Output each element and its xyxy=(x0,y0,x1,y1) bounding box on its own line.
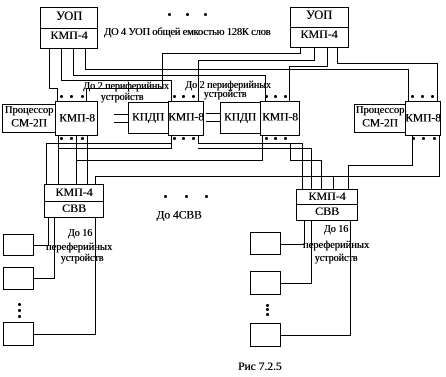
wire UOP2 pinB down xyxy=(314,48,315,61)
node vertical dots right xyxy=(266,304,269,307)
wire KMP8-C pin2 drop xyxy=(290,143,291,161)
block peripheral L2 xyxy=(3,267,34,290)
wire UOP1 pin4 into KMP8-D xyxy=(408,69,409,102)
node vertical dots left xyxy=(18,303,21,306)
label caption xyxy=(238,362,282,374)
wire bus Lc xyxy=(76,160,263,161)
wire KMP8-C pin1 down xyxy=(262,135,263,161)
wire bus La into KMP4-R xyxy=(302,143,303,190)
block UOP1 (left УОП / КМП-4) xyxy=(40,7,98,49)
wire bus La right segment xyxy=(198,143,303,144)
wire SVV1 to box L3 xyxy=(95,218,96,335)
label peripheral-2 xyxy=(185,81,271,91)
wire KMP8-D pin2 down to Ld xyxy=(439,136,440,177)
wire SVV2 to box R2 xyxy=(311,221,312,284)
label До 16 left xyxy=(68,229,92,239)
label До 16 right xyxy=(324,225,348,235)
wire UOP2 pinD into KMP8-D xyxy=(437,63,438,102)
wire UOP2 pinA lower horizontal xyxy=(86,88,163,89)
wire SVV1 to box L2 xyxy=(54,218,55,279)
wire KPDP2 stub lower xyxy=(206,121,220,122)
wire seg165 xyxy=(348,165,413,166)
wire SVV1 to box L1 xyxy=(48,218,49,246)
wire UOP1 pin2 into KMP8-B xyxy=(171,80,172,102)
block peripheral L1 xyxy=(3,234,34,256)
wire UOP1 pin4 horizontal xyxy=(85,69,409,70)
wire bus Lb xyxy=(58,148,172,149)
node dots SVV ellipsis xyxy=(164,195,167,198)
wire UOP1 pin4 down xyxy=(85,49,86,70)
node top ellipsis dots xyxy=(168,13,171,16)
wire UOP2 pinA mid vertical xyxy=(162,53,163,89)
block peripheral L3 xyxy=(3,322,34,346)
wire UOP1 pin2 horizontal xyxy=(61,80,172,81)
wire bus Ld into KMP4-R xyxy=(333,176,334,190)
wire UOP2 pinB horizontal xyxy=(198,60,315,61)
block UOP2 (right УОП / КМП-4) xyxy=(290,7,349,48)
wire KPDP1 stub upper xyxy=(114,114,128,115)
label До 4СВВ xyxy=(156,210,201,222)
block SVV2 (right КМП-4 / СВВ) xyxy=(296,189,358,221)
wire SVV2 to box R1 xyxy=(304,221,305,245)
wire KMP8-A pin4 down to KMP4 xyxy=(87,135,88,185)
block KMP8-B (mid-left КМП-8) xyxy=(168,101,204,136)
wire UOP2 pinA into KMP8-A xyxy=(86,88,87,102)
wire seg161 into KMP4-R xyxy=(321,160,322,190)
label peripheral-1 xyxy=(83,82,169,92)
wire UOP2 pinA horizontal xyxy=(162,53,301,54)
wire seg161 xyxy=(290,160,322,161)
block SVV1 (left КМП-4 / СВВ) xyxy=(44,184,104,218)
node dots above KMP8-D xyxy=(411,95,414,98)
block peripheral R3 xyxy=(250,323,281,347)
wire KPDP2 stub upper xyxy=(206,113,220,114)
block KPDP2 (right КПДП) xyxy=(220,102,261,134)
node dots above KMP8-A xyxy=(60,95,63,98)
label capacity text xyxy=(104,28,270,39)
wire La branch down to KMP4 xyxy=(46,143,47,185)
wire bus La left segment xyxy=(46,143,172,144)
wire bus Ld xyxy=(95,176,440,177)
wire UOP2 pinC horizontal xyxy=(289,66,328,67)
wire UOP2 pinC down xyxy=(327,48,328,67)
wire UOP1 pin1 down xyxy=(49,49,50,89)
wire bus Lb right part xyxy=(198,148,312,149)
wire UOP1 pin1 into KMP8-A xyxy=(57,88,58,102)
wire UOP2 pinB into KMP8-B xyxy=(198,60,199,102)
block processor P1 (Процессор СМ-2П left) xyxy=(2,104,56,133)
block peripheral R2 xyxy=(250,271,281,295)
wire UOP2 pinC into KMP8-C xyxy=(289,66,290,102)
wire KMP8-B pin2 down xyxy=(198,135,199,144)
node dots above KMP8-C xyxy=(265,95,268,98)
block peripheral R1 xyxy=(250,232,281,255)
wire UOP1 pin2 down xyxy=(61,49,62,81)
wire UOP1 pin1 jog xyxy=(49,88,58,89)
block KPDP1 (left КПДП) xyxy=(128,102,169,134)
wire UOP2 pinD down xyxy=(337,48,338,64)
wire UOP1 pin3 horizontal xyxy=(73,75,266,76)
wire KMP8-B pin1 down xyxy=(171,135,172,149)
node dots above KMP8-B xyxy=(173,95,176,98)
wire UOP2 pinD horizontal xyxy=(337,63,438,64)
node dots below KMP8-B xyxy=(173,137,176,140)
node dots below KMP8-D xyxy=(412,137,415,140)
wire KMP8-A pin3 down to KMP4 xyxy=(76,135,77,185)
wire KPDP1 stub lower xyxy=(114,122,128,123)
node dots below KMP8-C xyxy=(265,137,268,140)
wire UOP2 pinA down xyxy=(300,48,301,54)
wire UOP1 pin3 into KMP8-C xyxy=(265,75,266,102)
wire SVV2 to box R3 xyxy=(350,221,351,336)
block KMP8-A (left КМП-8) xyxy=(55,101,98,136)
wire KMP8-A pin2 down to KMP4 xyxy=(58,135,59,185)
wire UOP1 pin3 down xyxy=(73,49,74,76)
node dots below KMP8-A xyxy=(60,137,63,140)
block KMP8-C (mid-right КМП-8) xyxy=(260,101,300,136)
block KMP8-D (far right КМП-8) xyxy=(405,101,441,136)
wire bus Lb into KMP4-R xyxy=(311,148,312,190)
wire seg165 into KMP4-R xyxy=(348,165,349,190)
block processor P2 (Процессор СМ-2П right) xyxy=(354,104,406,133)
wire bus Ld hook down to KMP4 xyxy=(95,176,96,185)
wire KMP8-D pin1 down xyxy=(412,136,413,166)
